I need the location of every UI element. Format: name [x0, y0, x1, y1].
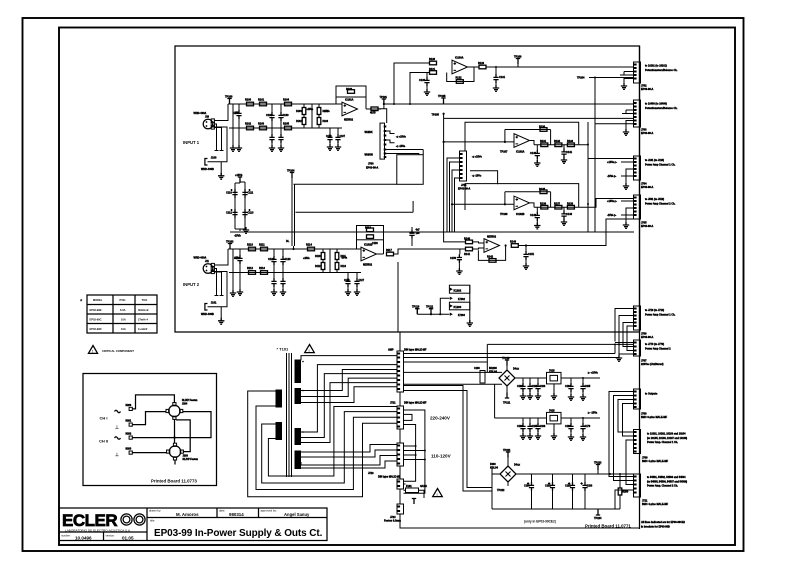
rail 2 — [229, 249, 361, 293]
svg-text:R121: R121 — [429, 68, 436, 71]
svg-text:DIN type MALE-MF: DIN type MALE-MF — [404, 402, 427, 405]
output rail — [530, 141, 579, 145]
svg-text:R130: R130 — [539, 126, 546, 129]
regulator 7815 — [547, 372, 562, 384]
C163 — [537, 378, 539, 383]
opto relay K1203 — [449, 302, 469, 310]
svg-text:IC102A: IC102A — [516, 151, 525, 154]
svg-text:TP110: TP110 — [412, 306, 420, 309]
svg-text:IC101A: IC101A — [345, 99, 354, 102]
svg-text:R103: R103 — [258, 123, 265, 126]
svg-text:C111: C111 — [248, 192, 254, 195]
svg-text:to Outputs: to Outputs — [645, 393, 658, 396]
C170 — [582, 418, 584, 423]
svg-text:C140: C140 — [530, 152, 537, 155]
svg-text:TP210: TP210 — [502, 357, 510, 360]
op-amp IC102B — [514, 196, 530, 210]
R121 — [430, 71, 437, 75]
svg-text:Power Amp Channel 2 Ch.: Power Amp Channel 2 Ch. — [645, 202, 676, 205]
svg-text:drawn by:: drawn by: — [149, 509, 161, 513]
C131 — [495, 67, 497, 74]
svg-text:INPUT 2: INPUT 2 — [183, 282, 200, 287]
wire to bus pin — [579, 199, 634, 208]
link stub right — [470, 171, 498, 185]
svg-text:C130: C130 — [419, 79, 426, 82]
TP105 on rail 1 — [441, 98, 445, 104]
svg-text:to 54501, 54502, 54503 and 545: to 54501, 54502, 54503 and 54504 — [647, 476, 686, 479]
svg-text:C110: C110 — [226, 192, 232, 195]
C150 — [459, 249, 461, 254]
svg-text:Power Amp Channel 2: Power Amp Channel 2 — [645, 347, 671, 350]
warning triangle — [305, 345, 315, 353]
svg-text:DIN type MALE-MF: DIN type MALE-MF — [404, 349, 427, 352]
svg-text:110-120V: 110-120V — [431, 454, 452, 459]
svg-text:C181: C181 — [545, 485, 551, 488]
svg-text:C168: C168 — [540, 425, 546, 428]
svg-text:▷ +15Va: ▷ +15Va — [587, 371, 598, 375]
svg-text:CH II: CH II — [99, 439, 108, 444]
svg-text:KBL04: KBL04 — [489, 370, 498, 373]
connector CN3 power amp ch1 — [634, 156, 641, 180]
svg-text:J723: J723 — [368, 472, 374, 475]
svg-text:N201: N201 — [126, 420, 132, 423]
R111 — [261, 247, 268, 251]
C106 C107 caps to ground — [329, 128, 331, 134]
shell wire to jack J100 — [208, 127, 228, 176]
svg-text:C180: C180 — [524, 485, 530, 488]
svg-text:to J770 (to J770): to J770 (to J770) — [645, 343, 664, 346]
svg-text:980314: 980314 — [229, 512, 244, 517]
svg-text:D113: D113 — [341, 266, 347, 268]
svg-text:R113: R113 — [259, 267, 265, 270]
svg-text:EP03-99C: EP03-99C — [90, 317, 102, 321]
svg-text:EP03-99-A: EP03-99-A — [641, 225, 654, 228]
svg-text:4A/6A: 4A/6A — [420, 485, 427, 488]
R131 — [541, 143, 548, 147]
op-amp IC100A — [452, 60, 468, 74]
svg-text:Potentiometers/Balance Ch.: Potentiometers/Balance Ch. — [645, 107, 678, 110]
svg-text:R138: R138 — [567, 202, 574, 205]
svg-text:D4xx: D4xx — [514, 464, 521, 467]
R110 — [249, 247, 256, 251]
C120 — [239, 249, 241, 255]
connector CN5 — [634, 306, 641, 330]
main box outline — [175, 46, 640, 332]
svg-text:TP108: TP108 — [500, 213, 508, 216]
svg-text:J10: J10 — [205, 115, 210, 118]
svg-text:10.0496: 10.0496 — [75, 536, 92, 541]
C130 — [426, 73, 428, 78]
loop 1 — [248, 391, 397, 497]
svg-text:ECLER: ECLER — [62, 511, 117, 530]
svg-text:220Vac (Unfiltered): 220Vac (Unfiltered) — [641, 363, 664, 366]
svg-text:C165: C165 — [585, 385, 591, 388]
C122 — [273, 249, 275, 256]
svg-text:R110: R110 — [247, 244, 253, 247]
AC feed top wire — [403, 344, 634, 372]
svg-text:approved by:: approved by: — [261, 509, 277, 513]
svg-text:J11: J11 — [205, 260, 210, 263]
TP110 — [415, 309, 419, 315]
filter cap C183 — [584, 474, 586, 482]
svg-text:C122: C122 — [268, 258, 275, 261]
TP120 — [412, 499, 416, 505]
svg-text:10A: 10A — [121, 317, 126, 321]
svg-text:WH/GN: WH/GN — [365, 153, 374, 156]
svg-text:◁ +15Va: ◁ +15Va — [395, 135, 406, 139]
svg-text:R116: R116 — [365, 227, 371, 230]
svg-text:NE5532: NE5532 — [363, 264, 373, 267]
svg-text:BMC 6-pins MALE-MF: BMC 6-pins MALE-MF — [641, 416, 667, 419]
svg-text:C127: C127 — [359, 280, 365, 282]
C113 — [242, 209, 247, 218]
svg-text:C170: C170 — [585, 425, 591, 428]
R105 — [285, 126, 292, 130]
svg-text:LABORATORIO DE ELECTRO-ACUSTIC: LABORATORIO DE ELECTRO-ACUSTICA S.A. — [65, 529, 131, 533]
filter cap C181 — [552, 474, 554, 482]
svg-text:R105: R105 — [283, 123, 290, 126]
svg-text:RL/KP Fasten: RL/KP Fasten — [183, 458, 199, 461]
R101 — [260, 102, 267, 106]
svg-text:TP222: TP222 — [497, 489, 505, 492]
R102 — [247, 126, 254, 130]
svg-text:D100: D100 — [296, 111, 302, 113]
svg-text:TP111: TP111 — [426, 306, 434, 309]
svg-text:30mH+B: 30mH+B — [138, 308, 149, 312]
svg-text:C160: C160 — [474, 367, 480, 370]
svg-text:D4xx: D4xx — [513, 368, 520, 371]
connector J720 (secondary out) — [397, 351, 404, 392]
svg-text:27mH+4: 27mH+4 — [138, 317, 149, 321]
svg-text:N200: N200 — [126, 404, 132, 407]
long link rail lower — [296, 201, 414, 212]
feedback network R116 C128 — [357, 226, 384, 240]
svg-text:EP03-99-A: EP03-99-A — [366, 166, 379, 169]
loop to 110V connector — [301, 445, 397, 469]
svg-text:EP03-99-A: EP03-99-A — [641, 88, 654, 91]
TP111 — [429, 309, 433, 315]
svg-text:version:: version: — [106, 534, 115, 538]
C124 — [273, 273, 275, 279]
svg-text:EP03-99-A: EP03-99-A — [641, 132, 654, 135]
connector CN-D ch2 power — [634, 474, 641, 497]
svg-text:IC102B: IC102B — [516, 213, 525, 216]
bridge rectifier BR201 — [500, 466, 516, 482]
svg-text:01.05: 01.05 — [122, 536, 134, 541]
svg-text:C107: C107 — [340, 136, 346, 138]
R141 — [466, 247, 473, 251]
TP223 TP224 — [596, 465, 600, 471]
svg-text:TP103: TP103 — [226, 241, 234, 244]
svg-text:C169: C169 — [565, 425, 571, 428]
main dc rails — [492, 474, 615, 509]
svg-text:All lines indicated are for EP: All lines indicated are for EP03-99CE2 — [641, 521, 686, 524]
relay RL1 — [169, 405, 180, 416]
R113 — [261, 271, 268, 275]
svg-text:NE5532: NE5532 — [344, 119, 354, 122]
feedback network R106 C108 — [336, 86, 366, 97]
svg-text:R123: R123 — [478, 62, 485, 65]
feedback loop R135 — [505, 192, 551, 207]
svg-text:Angel Sanuy: Angel Sanuy — [284, 512, 310, 517]
inter-connector wires — [609, 392, 634, 485]
C142 — [536, 207, 538, 212]
svg-text:IC100A: IC100A — [455, 57, 464, 60]
loop 2 — [256, 406, 397, 490]
svg-text:R131: R131 — [540, 140, 547, 143]
svg-text:EP03-99-A: EP03-99-A — [641, 186, 654, 189]
svg-text:R133: R133 — [567, 140, 574, 143]
svg-text:R120: R120 — [429, 58, 436, 61]
svg-text:-15Va: -15Va — [341, 258, 348, 260]
svg-text:DL: DL — [286, 240, 290, 243]
svg-text:-15Vb: -15Vb — [234, 235, 241, 238]
svg-text:220-240V: 220-240V — [430, 416, 451, 421]
TP102 — [238, 177, 242, 183]
svg-text:17202: 17202 — [458, 298, 466, 301]
svg-text:R135: R135 — [539, 188, 546, 191]
C112 — [232, 209, 237, 218]
svg-text:C183: C183 — [587, 485, 593, 488]
svg-text:◁ -15Va: ◁ -15Va — [395, 144, 406, 148]
vertical line x588 — [587, 122, 589, 232]
rail 2 — [229, 104, 342, 148]
C104 — [271, 128, 273, 134]
bridge rectifier BR200 — [499, 370, 515, 386]
svg-text:KBL04: KBL04 — [490, 466, 499, 469]
wire from input1 rail up — [394, 63, 429, 104]
svg-text:TP205: TP205 — [432, 114, 440, 117]
svg-text:to J501 (to J510): to J501 (to J510) — [645, 198, 664, 201]
vertical line x398 — [397, 262, 399, 332]
TP100 test point — [227, 99, 231, 105]
critical component note — [88, 346, 134, 354]
svg-text:TP211: TP211 — [503, 402, 511, 405]
R103 — [260, 126, 267, 130]
svg-text:D103: D103 — [323, 121, 329, 123]
secondary winding S2 — [295, 388, 302, 404]
svg-text:J721: J721 — [390, 402, 396, 405]
svg-text:D102: D102 — [296, 121, 302, 123]
svg-text:C120: C120 — [234, 257, 241, 260]
svg-text:AMP: AMP — [388, 349, 394, 352]
core — [287, 353, 292, 477]
R117 output resistor — [387, 252, 394, 256]
svg-text:R102: R102 — [245, 123, 252, 126]
svg-text:WRD-400B: WRD-400B — [201, 168, 214, 171]
op-amp IC102A — [514, 134, 530, 148]
svg-text:C163: C163 — [540, 385, 546, 388]
C110 — [232, 189, 237, 198]
svg-text:TP224: TP224 — [594, 517, 602, 520]
inner border frame — [59, 28, 735, 546]
rail to connector CN2 — [444, 117, 634, 119]
svg-text:to 10101, 10102, 10103 and 101: to 10101, 10102, 10103 and 10104 — [647, 433, 686, 436]
connector J723 — [397, 479, 404, 489]
shell wire to jack J101 — [208, 272, 228, 321]
svg-text:7815: 7815 — [549, 369, 555, 372]
R136 — [541, 205, 548, 209]
outer loop — [465, 122, 579, 151]
svg-text:R136: R136 — [540, 202, 547, 205]
svg-text:J101: J101 — [211, 302, 217, 305]
vertical feed line (doubled) — [292, 178, 295, 249]
connector CN-B outputs — [634, 389, 641, 409]
ground — [240, 229, 246, 230]
connector J700-A — [380, 123, 385, 159]
wire to bus pin — [579, 145, 634, 159]
svg-text:◁ +15Vc: ◁ +15Vc — [471, 155, 483, 159]
svg-text:WH/BK: WH/BK — [365, 131, 373, 134]
TP211 — [505, 393, 509, 399]
input wire — [444, 141, 514, 143]
C111 — [242, 189, 247, 198]
connector left wires — [447, 158, 460, 232]
svg-text:+15Vb: +15Vb — [235, 174, 243, 177]
svg-text:K1203: K1203 — [454, 305, 462, 309]
svg-text:R132: R132 — [554, 140, 561, 143]
svg-text:R141: R141 — [464, 253, 471, 256]
TP106 — [516, 59, 520, 65]
C123 — [280, 256, 285, 265]
relay wiring — [132, 395, 211, 465]
C143 — [563, 207, 565, 211]
X-cap C160 — [480, 371, 485, 384]
svg-text:C131: C131 — [499, 76, 506, 79]
svg-text:EP03-99-A: EP03-99-A — [458, 188, 471, 191]
svg-text:R104: R104 — [283, 99, 290, 102]
svg-text:!: ! — [437, 493, 438, 497]
right side selector loop — [404, 410, 425, 493]
svg-text:+15Va: +15Va — [303, 258, 310, 260]
svg-text:to J710 (to J710): to J710 (to J710) — [645, 309, 664, 312]
svg-text:Faston 6.3mm: Faston 6.3mm — [384, 520, 402, 523]
R104 — [285, 102, 292, 106]
R114 — [308, 247, 315, 251]
svg-text:to 10400 (to 10400): to 10400 (to 10400) — [645, 103, 667, 106]
svg-text:C182: C182 — [565, 485, 571, 488]
svg-text:TP106: TP106 — [514, 56, 522, 59]
TP221 — [506, 452, 510, 458]
feedback loop R130 — [505, 130, 551, 145]
svg-text:TP105: TP105 — [438, 95, 446, 98]
svg-text:C126: C126 — [344, 280, 350, 282]
svg-text:R143: R143 — [510, 241, 517, 244]
diode network D110-D113 — [303, 249, 348, 273]
secondary winding S1 — [295, 360, 302, 384]
svg-text:C103: C103 — [283, 114, 290, 117]
C103 — [278, 112, 283, 121]
C100 — [238, 104, 240, 110]
svg-text:J204: J204 — [182, 403, 188, 406]
svg-text:D112: D112 — [315, 266, 321, 268]
op-amp IC101A — [342, 102, 358, 116]
svg-text:R137: R137 — [554, 202, 561, 205]
svg-text:D110: D110 — [315, 256, 321, 258]
svg-text:C164: C164 — [565, 385, 571, 388]
svg-text:Power Amp. Channel 2 Ch.: Power Amp. Channel 2 Ch. — [647, 485, 678, 488]
svg-text:R112: R112 — [247, 267, 253, 270]
positive rail — [515, 377, 547, 379]
drive wires — [417, 298, 449, 314]
svg-text:Printed Board 11.0771: Printed Board 11.0771 — [585, 524, 631, 529]
svg-text:7915: 7915 — [549, 409, 555, 412]
input wire — [452, 203, 514, 205]
connector J721 (220V taps) — [397, 406, 404, 429]
svg-text:C123: C123 — [285, 258, 292, 261]
svg-text:+15Va: +15Va — [307, 109, 314, 111]
wire to second stage — [394, 249, 467, 254]
svg-text:TP100: TP100 — [225, 96, 233, 99]
svg-text:T101: T101 — [142, 298, 148, 302]
svg-text:R106: R106 — [346, 88, 353, 91]
svg-text:K1202: K1202 — [454, 289, 462, 293]
connector J722 (110V taps) — [397, 443, 404, 466]
R143 — [511, 244, 518, 248]
C126 C127 — [347, 273, 349, 279]
svg-text:6.3A: 6.3A — [120, 308, 126, 312]
connector CN-C ch1 power — [634, 430, 641, 454]
svg-text:R117: R117 — [386, 249, 392, 252]
wire to bus — [486, 66, 634, 68]
R133 — [567, 143, 574, 147]
AC input pair to bridge — [403, 362, 502, 488]
connector J701 — [460, 151, 467, 181]
secondary leads to connector (staircase) — [301, 356, 397, 443]
connector CN4 power amp ch2 — [634, 195, 641, 219]
secondary winding S3 — [295, 428, 302, 445]
C161 — [522, 378, 524, 383]
svg-text:number:: number: — [61, 534, 71, 538]
bleed resistor R200 — [618, 488, 622, 495]
svg-text:R114: R114 — [306, 244, 312, 247]
feedback R122 — [447, 67, 479, 82]
svg-text:CRITICAL COMPONENT: CRITICAL COMPONENT — [102, 349, 134, 353]
negative rail row — [495, 417, 547, 419]
R138 — [567, 205, 574, 209]
svg-text:Printed Board 11.0773: Printed Board 11.0773 — [151, 479, 197, 484]
C149 coupling cap — [411, 227, 413, 230]
svg-text:F101: F101 — [406, 485, 412, 488]
svg-text:EP03-99D: EP03-99D — [90, 327, 102, 331]
svg-text:C128: C128 — [372, 242, 378, 245]
C169 — [570, 418, 572, 423]
svg-text:▷ -15Va: ▷ -15Va — [587, 411, 598, 415]
filter cap bank C180 — [531, 474, 533, 482]
input wire from TP205 line — [444, 232, 466, 242]
svg-text:EP03-99-A: EP03-99-A — [641, 336, 654, 339]
connector CN-A unfiltered — [634, 340, 641, 356]
XLR pin wires — [214, 249, 228, 296]
C166 — [522, 418, 524, 423]
svg-text:P101: P101 — [120, 298, 127, 302]
R112 — [249, 271, 256, 275]
filter cap C182 — [572, 474, 574, 482]
C162 — [529, 378, 531, 383]
svg-text:DIN type MALE-MF: DIN type MALE-MF — [378, 476, 401, 479]
svg-text:10A: 10A — [121, 327, 126, 331]
long link rail upper — [294, 183, 397, 185]
svg-text:J100: J100 — [211, 157, 217, 160]
svg-text:TP221: TP221 — [503, 449, 511, 452]
svg-text:N203: N203 — [126, 448, 132, 451]
svg-text:C106: C106 — [326, 136, 332, 138]
C164 — [570, 378, 572, 383]
R140 — [466, 240, 473, 244]
output rail — [530, 203, 579, 207]
svg-text:Power Amp Channel 1 Ch.: Power Amp Channel 1 Ch. — [645, 163, 676, 166]
svg-text:-15Va ▷: -15Va ▷ — [607, 213, 617, 217]
